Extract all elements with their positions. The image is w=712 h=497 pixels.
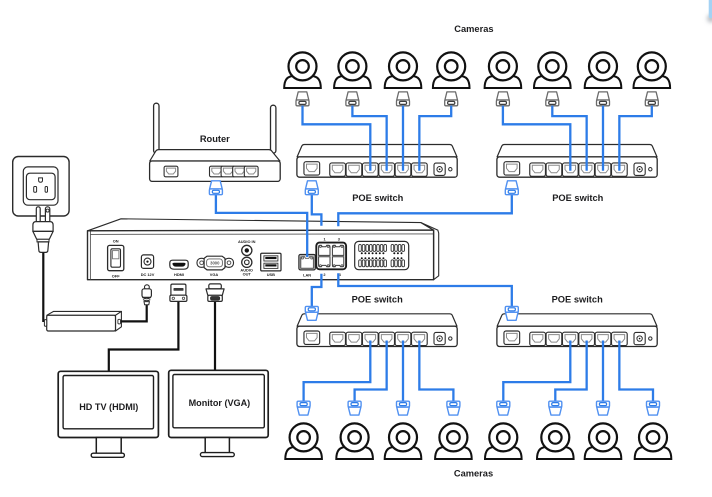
RJ45 connector of CAM7	[597, 92, 610, 106]
wire: adapter to DC barrel	[121, 303, 147, 321]
blue plug: SW4 uplink	[505, 306, 518, 320]
svg-text:OFF: OFF	[112, 274, 120, 279]
HD TV (HDMI) monitor	[58, 371, 158, 457]
camera CAM14	[537, 423, 574, 459]
RJ45 connector of CAM11	[397, 401, 410, 415]
NVR LAN port	[299, 255, 315, 270]
svg-text:VGA: VGA	[210, 272, 219, 277]
camera CAM6	[534, 52, 571, 88]
scrollbar fragment top-right	[707, 0, 712, 23]
camera CAM8	[634, 52, 671, 88]
svg-text:3000: 3000	[210, 260, 220, 265]
NVR panel labels	[112, 237, 342, 279]
NVR PoE port block	[316, 243, 346, 270]
svg-text:HDMI: HDMI	[174, 272, 184, 277]
wire: SW2 uplink to NVR PoE3	[338, 194, 512, 227]
Monitor (VGA)	[169, 370, 269, 456]
blue plug: SW1 uplink	[305, 181, 318, 195]
RJ45 connector of CAM3	[397, 92, 410, 106]
RJ45 connector of CAM15	[597, 401, 610, 415]
POE switch SW4 bottom-right	[497, 314, 657, 347]
wire switch to CAM12	[419, 341, 453, 403]
camera CAM9	[285, 423, 322, 459]
wire CAM6 to switch port	[552, 106, 586, 171]
RJ45 connector of CAM13	[497, 401, 510, 415]
camera CAM16	[635, 423, 672, 459]
wire switch to CAM11	[402, 341, 404, 403]
POE switch SW1 top-left	[297, 145, 457, 178]
NVR HDMI port	[170, 260, 188, 269]
svg-text:POE switch: POE switch	[552, 295, 603, 305]
NVR recorder body	[88, 219, 439, 280]
wire CAM1 to switch port	[303, 106, 371, 171]
wire CAM8 to switch port	[619, 106, 651, 171]
svg-text:AUDIO IN: AUDIO IN	[238, 239, 256, 244]
RJ45 connector of CAM14	[549, 401, 562, 415]
POE switch SW3 bottom-left	[297, 314, 457, 347]
NVR audio out jack	[242, 257, 252, 267]
wire CAM2 to switch port	[352, 106, 386, 171]
camera CAM4	[433, 52, 470, 88]
RJ45 connector of CAM6	[546, 92, 559, 106]
RJ45 connector of CAM16	[647, 401, 660, 415]
RJ45 connector of CAM1	[296, 92, 309, 106]
camera CAM2	[334, 52, 371, 88]
RJ45 connector of CAM10	[348, 401, 361, 415]
camera CAM7	[585, 52, 622, 88]
RJ45 connector of CAM2	[346, 92, 359, 106]
wire switch to CAM14	[555, 341, 586, 403]
RJ45 connector of CAM4	[445, 92, 458, 106]
router	[150, 103, 281, 181]
svg-text:ON: ON	[113, 238, 119, 243]
svg-text:POE switch: POE switch	[352, 295, 403, 305]
wire switch to CAM10	[355, 341, 387, 403]
wire switch to CAM9	[304, 341, 371, 403]
NVR DC 12V port	[141, 255, 153, 269]
blue plug: router LAN1	[209, 181, 222, 195]
camera CAM13	[485, 423, 522, 459]
POE switch SW2 top-right	[497, 145, 657, 178]
svg-text:Cameras: Cameras	[454, 24, 493, 34]
wire CAM7 to switch port	[602, 106, 604, 171]
svg-text:OUT: OUT	[243, 272, 252, 277]
wire CAM5 to switch port	[503, 106, 570, 171]
wall outlet	[13, 157, 69, 217]
wire switch to CAM16	[619, 341, 653, 403]
wire: SW1 uplink to NVR PoE1	[312, 194, 322, 226]
wire switch to CAM15	[602, 341, 604, 403]
svg-text:POE switch: POE switch	[352, 193, 403, 203]
power adapter	[44, 311, 121, 331]
svg-text:Monitor (VGA): Monitor (VGA)	[189, 398, 251, 408]
svg-text:DC 12V: DC 12V	[141, 272, 155, 277]
NVR audio in jack	[242, 245, 252, 255]
camera CAM11	[385, 423, 422, 459]
camera CAM1	[284, 52, 321, 88]
HDMI cable connector below NVR	[170, 284, 187, 301]
wire: router to NVR LAN	[216, 194, 307, 258]
wire: NVR PoE2 to SW3	[312, 274, 322, 308]
NVR VGA port	[197, 256, 234, 270]
DC barrel connector	[142, 285, 151, 305]
camera CAM15	[585, 423, 622, 459]
wire switch to CAM13	[503, 341, 570, 403]
NVR vent grille	[355, 241, 409, 269]
VGA cable connector below NVR	[206, 284, 224, 302]
blue plug: SW3 uplink	[305, 306, 318, 320]
wire CAM4 to switch port	[419, 106, 451, 171]
camera CAM5	[485, 52, 522, 88]
RJ45 connector of CAM12	[447, 401, 460, 415]
svg-text:HD TV (HDMI): HD TV (HDMI)	[79, 402, 138, 412]
camera CAM10	[336, 423, 373, 459]
wire: NVR PoE4 to SW4	[338, 273, 512, 307]
RJ45 connector of CAM9	[297, 401, 310, 415]
wire: HDMI connector to TV	[109, 299, 179, 372]
wire: plug to power adapter	[42, 253, 44, 322]
NVR power switch	[108, 245, 124, 270]
power plug	[33, 207, 53, 253]
camera CAM3	[385, 52, 422, 88]
svg-text:POE switch: POE switch	[552, 193, 603, 203]
svg-text:LAN: LAN	[303, 272, 311, 277]
blue plug: SW2 uplink	[505, 181, 518, 195]
RJ45 connector of CAM5	[496, 92, 509, 106]
RJ45 connector of CAM8	[645, 92, 658, 106]
svg-text:Router: Router	[200, 134, 230, 144]
camera CAM12	[435, 423, 472, 459]
svg-text:Cameras: Cameras	[454, 469, 493, 479]
NVR USB ports	[261, 253, 281, 271]
svg-text:USB: USB	[267, 272, 275, 277]
wire: VGA connector to monitor	[214, 299, 216, 371]
wire CAM3 to switch port	[402, 106, 404, 171]
